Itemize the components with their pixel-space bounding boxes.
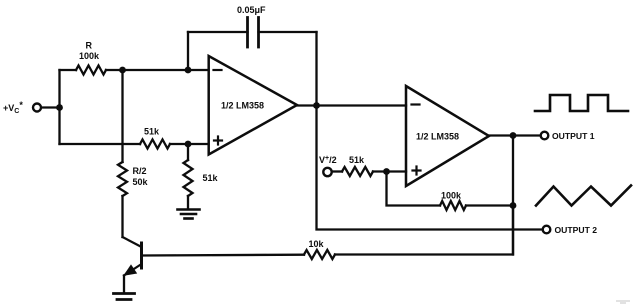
junction node at R/2 tap: [119, 67, 126, 74]
resistor 10k: [304, 250, 335, 259]
junction U2 output node: [510, 132, 517, 139]
svg-text:0.05μF: 0.05μF: [237, 5, 266, 15]
resistor 100k feedback: [440, 201, 466, 210]
svg-text:50k: 50k: [133, 177, 149, 187]
wire top rail left: [60, 69, 77, 71]
pin minus U1: [214, 69, 222, 71]
pin plus U1: [214, 137, 222, 145]
junction U1 output node: [313, 102, 320, 109]
svg-text:100k: 100k: [441, 191, 462, 201]
svg-text:R: R: [86, 41, 93, 51]
square wave icon: [535, 95, 628, 111]
resistor 51k horizontal: [140, 140, 170, 149]
junction input node: [56, 104, 63, 111]
svg-text:51k: 51k: [203, 173, 219, 183]
svg-text:51k: 51k: [349, 155, 365, 165]
junction U2 plus node: [383, 168, 390, 175]
node OUTPUT 2 terminal: [543, 226, 551, 234]
resistor 51k bias: [342, 167, 373, 176]
svg-text:+VC*: +VC*: [3, 100, 23, 115]
resistor 51k vertical: [184, 160, 193, 196]
triangle wave icon: [536, 186, 631, 206]
resistor R 100k: [76, 66, 106, 75]
wire bottom rail to 51k: [60, 143, 141, 145]
op-amp U2 1/2 LM358: [406, 86, 489, 186]
wire 51k ground branch: [187, 144, 189, 160]
op-amp U1 1/2 LM358: [209, 56, 297, 155]
wire 51k to ground: [187, 196, 189, 209]
wire U1 output down to output 2 rail: [317, 106, 543, 230]
wire feedback left vertical: [187, 32, 189, 70]
ground under 51k: [178, 210, 200, 219]
wire feedback top left: [188, 31, 248, 33]
node +VC input terminal: [33, 104, 41, 112]
wire R to op-amp minus input: [106, 69, 209, 71]
ground under transistor emitter: [114, 294, 135, 300]
wire feedback top right: [259, 31, 317, 33]
junction node plus input: [185, 141, 192, 148]
svg-text:OUTPUT 1: OUTPUT 1: [552, 131, 595, 141]
pin minus U2: [412, 103, 420, 105]
svg-text:10k: 10k: [309, 239, 325, 249]
transistor Q1: [123, 237, 142, 293]
svg-text:51k: 51k: [144, 127, 160, 137]
wire plus node down to 100k: [387, 172, 441, 206]
wire R/2 to transistor collector: [121, 196, 123, 237]
capacitor C1 0.05uF: [248, 18, 259, 48]
wire U2 output: [489, 134, 541, 136]
pin plus U2: [413, 167, 421, 175]
wire 100k to output node: [466, 204, 513, 206]
svg-text:V+/2: V+/2: [319, 155, 337, 165]
svg-text:OUTPUT 2: OUTPUT 2: [555, 225, 598, 235]
faint scan artifact bottom right: [616, 301, 630, 303]
svg-text:1/2 LM358: 1/2 LM358: [416, 132, 459, 142]
wire input vertical branch: [58, 70, 60, 144]
node V+/2 terminal: [323, 168, 331, 176]
wire input terminal to junction: [42, 106, 60, 108]
node OUTPUT 1 terminal: [541, 132, 549, 140]
wire transistor base line: [142, 254, 305, 257]
wire U1 output to U2 minus input: [297, 104, 406, 106]
svg-text:100k: 100k: [79, 51, 100, 61]
junction node at feedback tap: [185, 67, 192, 74]
svg-text:R/2: R/2: [133, 166, 147, 176]
wire 10k to right corner: [335, 206, 513, 255]
junction 100k output node: [510, 202, 517, 209]
resistor R/2 50k: [118, 162, 127, 196]
wire 51k to op-amp plus input: [170, 143, 209, 145]
wire V+/2 to 51k: [332, 170, 342, 172]
wire R/2 branch upper: [121, 70, 123, 162]
wire U2 output down to 100k node and bottom rail: [512, 136, 514, 255]
wire 51k to U2 plus input: [373, 170, 406, 172]
wire feedback right vertical: [315, 32, 317, 106]
svg-text:1/2 LM358: 1/2 LM358: [221, 101, 264, 111]
